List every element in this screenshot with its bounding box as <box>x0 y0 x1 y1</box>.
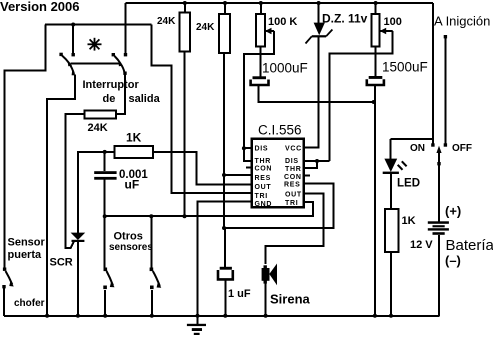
svg-text:OUT: OUT <box>285 192 302 199</box>
svg-text:THR: THR <box>285 166 302 173</box>
svg-text:100 K: 100 K <box>268 16 297 28</box>
svg-text:ON: ON <box>410 143 425 154</box>
svg-text:OFF: OFF <box>452 143 472 154</box>
svg-text:Sirena: Sirena <box>270 292 311 307</box>
svg-text:DIS: DIS <box>285 158 299 165</box>
svg-text:A Inigción: A Inigción <box>434 14 490 29</box>
svg-text:12 V: 12 V <box>410 239 433 251</box>
svg-text:GND: GND <box>255 201 273 208</box>
svg-text:1500uF: 1500uF <box>382 60 428 75</box>
svg-text:100: 100 <box>384 16 402 28</box>
svg-text:CON: CON <box>255 165 273 172</box>
svg-text:(–): (–) <box>445 253 461 268</box>
svg-text:Sensor: Sensor <box>8 237 46 249</box>
svg-text:de: de <box>103 93 116 105</box>
svg-text:Otros: Otros <box>114 231 143 243</box>
svg-text:1K: 1K <box>402 215 416 227</box>
svg-text:1 uF: 1 uF <box>228 288 251 300</box>
svg-text:24K: 24K <box>157 16 176 27</box>
svg-text:Batería: Batería <box>446 237 493 254</box>
svg-text:sensores: sensores <box>109 242 153 253</box>
svg-text:uF: uF <box>125 178 140 192</box>
svg-text:1K: 1K <box>126 131 142 145</box>
svg-text:puerta: puerta <box>8 249 43 261</box>
svg-text:chofer: chofer <box>14 298 45 309</box>
svg-text:DIS: DIS <box>255 146 269 153</box>
svg-text:SCR: SCR <box>50 257 73 269</box>
svg-text:THR: THR <box>255 158 272 165</box>
svg-text:RES: RES <box>284 182 301 189</box>
svg-text:Version 2006: Version 2006 <box>0 0 80 14</box>
svg-text:TRI: TRI <box>285 200 298 207</box>
svg-text:LED: LED <box>397 178 420 190</box>
svg-text:(+): (+) <box>445 204 461 219</box>
svg-text:Interruptor: Interruptor <box>83 79 140 91</box>
svg-text:VCC: VCC <box>285 146 302 153</box>
svg-text:1000uF: 1000uF <box>262 61 308 76</box>
svg-text:D.Z. 11v: D.Z. 11v <box>322 12 368 26</box>
svg-text:24K: 24K <box>88 122 108 134</box>
svg-text:salida: salida <box>129 93 161 105</box>
svg-text:24K: 24K <box>196 22 215 33</box>
svg-text:C.I.556: C.I.556 <box>258 123 302 138</box>
svg-text:RES: RES <box>255 175 272 182</box>
svg-text:TRI: TRI <box>255 193 268 200</box>
svg-text:CON: CON <box>284 174 302 181</box>
svg-text:OUT: OUT <box>255 184 272 191</box>
